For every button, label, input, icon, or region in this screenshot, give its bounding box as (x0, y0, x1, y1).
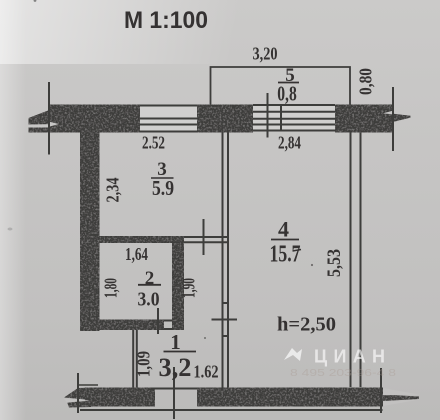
window living top line (253, 104, 335, 106)
svg-text:8 495 203-96-4 8: 8 495 203-96-4 8 (290, 368, 397, 379)
left thick wall (80, 133, 100, 332)
svg-text:5.9: 5.9 (152, 176, 174, 200)
extension line bottom-right (380, 368, 382, 413)
threshold line bottom-left (78, 384, 98, 386)
window living lines (253, 111, 335, 113)
extension line bottom-left (77, 373, 79, 413)
paper edge left (0, 0, 26, 420)
wall break symbol bottom-right (383, 395, 419, 402)
room 2 fraction bar (138, 284, 161, 286)
partition living left line a (222, 133, 224, 388)
svg-text:2.52: 2.52 (142, 133, 165, 153)
watermark logo (284, 348, 302, 361)
wall break symbol top-right (393, 114, 411, 122)
bathroom top wall (98, 236, 184, 243)
svg-text:М 1:100: М 1:100 (124, 7, 208, 34)
svg-text:4: 4 (278, 217, 289, 242)
window glass light fill living (253, 104, 335, 131)
svg-text:1: 1 (170, 330, 181, 354)
entry door tick (173, 367, 175, 419)
opening tick on partition (212, 319, 238, 321)
white notch in top-right break (383, 111, 393, 114)
extension line right end (392, 87, 394, 151)
room 3 fraction bar (151, 177, 174, 179)
wall top-right segment (335, 105, 393, 133)
svg-text:15.7: 15.7 (270, 241, 301, 268)
partition living left line b (227, 133, 229, 388)
speck dot room4 (311, 264, 313, 266)
balcony door jamb line (267, 93, 269, 138)
svg-text:2,84: 2,84 (278, 133, 301, 153)
svg-text:1,09: 1,09 (134, 351, 154, 377)
svg-text:1.62: 1.62 (194, 362, 219, 382)
svg-text:3,20: 3,20 (253, 44, 278, 64)
bath door tick (157, 308, 159, 334)
svg-text:1,64: 1,64 (125, 244, 148, 264)
extension line left end (48, 82, 50, 155)
svg-text:1,90: 1,90 (179, 278, 199, 298)
svg-text:3.0: 3.0 (138, 289, 160, 311)
faint smudge left edge (8, 228, 13, 231)
window kitchen top line (140, 105, 197, 107)
balcony outline (211, 67, 351, 105)
partition rung lower (222, 335, 230, 337)
hall dim double line a (132, 330, 134, 388)
room 5 fraction bar (278, 82, 299, 84)
bottom wall top edge across door (151, 388, 197, 390)
bathroom bottom wall (95, 320, 164, 331)
svg-text:2: 2 (145, 268, 155, 289)
bottom wall left segment (85, 388, 155, 407)
doorway mark kitchen-hall (203, 219, 205, 255)
white notch in bottom-right break (383, 388, 419, 395)
svg-text:5,53: 5,53 (325, 249, 345, 277)
window kitchen bottom line (140, 131, 197, 133)
living room right wall line b (360, 133, 362, 388)
white notch in top-left break (48, 122, 59, 128)
svg-text:0,80: 0,80 (356, 68, 376, 95)
paper edge top (0, 0, 440, 64)
wall pier between windows (197, 105, 253, 133)
window kitchen mid lines (140, 118, 197, 120)
wall top-left segment (48, 105, 140, 133)
balcony door leaf line (280, 105, 282, 132)
living room right wall line a (350, 133, 352, 388)
svg-text:h=2,50: h=2,50 (277, 314, 336, 336)
hall dim double line b (136, 330, 138, 388)
window glass light fill kitchen (140, 105, 197, 133)
strikethrough on 7 (293, 250, 302, 252)
paper speck (34, 0, 37, 2)
svg-text:1,80: 1,80 (101, 278, 121, 298)
svg-text:3,2: 3,2 (159, 353, 192, 382)
bottom wall lower outline (80, 409, 383, 411)
partition rung upper (222, 302, 230, 304)
wall break symbol bottom-left (64, 388, 91, 401)
room 1 fraction bar (164, 351, 197, 353)
partition hall top lines (184, 236, 229, 238)
bath door jamb lines (164, 320, 173, 322)
svg-text:0,8: 0,8 (277, 82, 297, 106)
bathroom right wall (172, 243, 184, 330)
room 4 fraction bar (271, 239, 299, 241)
white notch in bottom-left break (64, 399, 90, 403)
wall break symbol top-left (29, 111, 60, 125)
svg-text:2,34: 2,34 (103, 177, 123, 202)
speck dot hall (204, 337, 206, 339)
bottom wall right segment (197, 388, 383, 407)
